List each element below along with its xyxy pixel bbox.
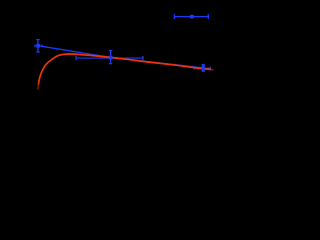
red model curve: faint lower tail [37, 85, 40, 90]
P3 right cap [210, 67, 212, 70]
P3 horizontal error bar [194, 67, 210, 69]
P2 square marker [109, 56, 113, 60]
red model curve: main branch [38, 54, 211, 85]
P2 vertical error bar [110, 51, 112, 64]
P3 marker with short vertical error bar (merged block) [202, 64, 205, 72]
P1 horizontal error bar [35, 45, 42, 47]
legend error-bar line [174, 16, 208, 18]
P2 right cap [142, 56, 144, 60]
P1 top cap [36, 39, 39, 41]
P1 left cap [34, 45, 36, 48]
P1 square marker [36, 44, 40, 48]
legend right cap [207, 14, 209, 19]
P2 top cap [109, 50, 112, 52]
P1 bottom cap [36, 51, 39, 53]
P1 vertical error bar [37, 40, 39, 53]
legend left cap [173, 14, 175, 19]
blue data polyline connecting points P1-P2-P3 [38, 46, 203, 68]
red model curve: faint right tail [211, 69, 214, 72]
legend square marker [190, 15, 194, 19]
P2 bottom cap [109, 63, 112, 65]
P2 horizontal error bar [76, 57, 143, 59]
P1 right cap [41, 45, 43, 48]
chart canvas [0, 0, 216, 161]
P2 left cap [75, 56, 77, 60]
P3 left cap [193, 67, 195, 70]
